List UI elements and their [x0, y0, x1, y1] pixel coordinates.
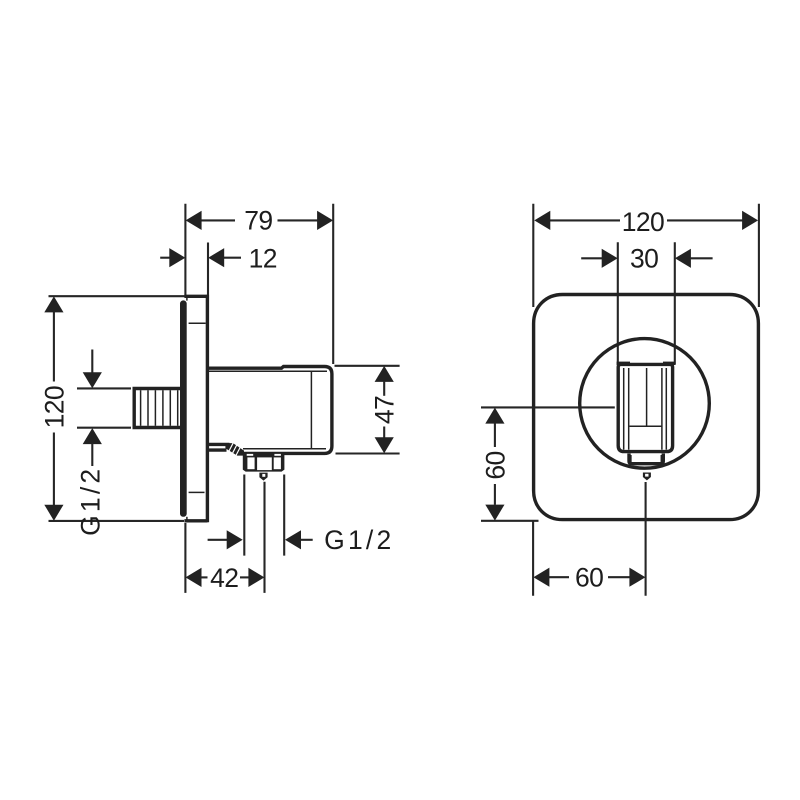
- escutcheon plate top edge: [184, 295, 207, 298]
- svg-text:G1/2: G1/2: [324, 525, 394, 555]
- nipple (front view): [643, 473, 651, 481]
- threaded inlet boss outline: [134, 389, 185, 428]
- svg-text:42: 42: [210, 563, 238, 593]
- svg-text:120: 120: [622, 207, 664, 237]
- dimension 60 bottom right arrow: [629, 568, 645, 587]
- centerline axis (right view): [645, 482, 647, 596]
- holder center vertical line: [646, 368, 648, 426]
- dimension 42 right arrow: [248, 568, 264, 587]
- holder body inner vertical line: [310, 371, 312, 448]
- holder top tab left: [617, 362, 630, 365]
- extension line x208 (plate front face, for dim 12): [207, 243, 209, 296]
- dimension 120 line (right view): [550, 219, 620, 221]
- escutcheon plate front face: [206, 295, 209, 522]
- dimension 47 line segments: [383, 381, 385, 396]
- dimension 60 left top arrow: [485, 408, 504, 424]
- G1/2 inlet extension line top: [77, 387, 131, 389]
- dimension 120 left arrow (right view): [534, 211, 550, 230]
- holder body inner bottom line: [243, 448, 326, 450]
- dimension 79 right arrow: [317, 211, 333, 230]
- dimension 47 extension line bottom: [336, 452, 400, 454]
- extension line x185 (wall face, for dims 79/12): [184, 204, 186, 295]
- dimension G1/2 outlet tail right: [300, 539, 313, 541]
- holder top tab right: [663, 362, 675, 365]
- extension line x618 (holder left, dim 30): [617, 242, 619, 364]
- dimension G1/2 outlet left arrow: [227, 530, 243, 549]
- G1/2 inlet upper leader line: [91, 350, 93, 374]
- dimension 120 line: [53, 311, 55, 381]
- svg-text:60: 60: [575, 563, 603, 593]
- dimension 30 tail left: [581, 257, 603, 259]
- holder arm chamfer band (filled): [225, 443, 244, 456]
- outlet nut (filled, side view): [243, 454, 285, 472]
- dimension 47 bottom arrow: [375, 437, 394, 453]
- holder front outline: [618, 364, 672, 451]
- dimension 47 extension line top: [335, 365, 400, 367]
- outlet nut facet right: [274, 457, 281, 469]
- dimension 120 top arrow: [44, 296, 63, 312]
- G1/2 inlet extension line bottom: [77, 427, 131, 429]
- escutcheon plate (front, soft square): [534, 295, 759, 520]
- dimension 30 left arrow: [602, 249, 618, 268]
- dimension G1/2 outlet tail left: [208, 539, 229, 541]
- extension line x533 (plate left, dim 120): [532, 204, 534, 307]
- dimension 60 bottom line segments: [548, 576, 569, 578]
- escutcheon plate bottom edge: [184, 519, 207, 522]
- dimension 60 left: extension line at plate bottom: [481, 520, 539, 522]
- dimension 60 left bottom arrow: [485, 505, 504, 521]
- extension line x533 bottom (dim 60 bottom): [532, 522, 534, 596]
- dimension 79 left arrow: [186, 211, 202, 230]
- dimension 30 right arrow: [675, 249, 691, 268]
- outlet nipple (side view): [259, 473, 267, 481]
- escutcheon plate corner tangent line bottom: [189, 491, 205, 493]
- dimension 12 line: [160, 257, 170, 259]
- G1/2 inlet upper arrow (down): [83, 372, 102, 388]
- svg-text:60: 60: [480, 451, 510, 479]
- G1/2 inlet lower leader line: [91, 443, 93, 466]
- extension line x758 (plate right, dim 120): [758, 204, 760, 307]
- dimension 12 right arrow: [208, 248, 224, 267]
- holder horizontal line: [630, 425, 662, 427]
- holder arm upper line: [209, 443, 230, 446]
- outlet nut facet middle: [257, 457, 272, 470]
- dimension 60 left line segments: [494, 423, 496, 447]
- escutcheon wall band (filled): [180, 300, 187, 516]
- svg-text:79: 79: [244, 206, 272, 236]
- extension line x333 (body front, for dim 79): [332, 204, 334, 364]
- threaded inlet boss hatch: [140, 390, 142, 426]
- holder arm lower line: [209, 448, 227, 451]
- extension line nut right: [283, 475, 285, 556]
- extension line x185 bottom (for dim 42): [184, 523, 186, 593]
- svg-text:G1/2: G1/2: [76, 466, 106, 536]
- dimension 30 tail right: [690, 257, 713, 259]
- G1/2 inlet lower arrow (up): [83, 428, 102, 444]
- dimension 42 left arrow: [186, 568, 202, 587]
- dimension 60 left: extension line at holder axis: [481, 406, 615, 408]
- extension line nut left: [243, 475, 245, 556]
- outlet nut top slit right: [274, 454, 281, 456]
- dimension 120 bottom arrow: [44, 505, 63, 521]
- holder ring circle: [580, 339, 710, 469]
- chamfer white ticks: [229, 443, 234, 452]
- holder inner vertical lines: [623, 368, 625, 450]
- escutcheon plate corner notch top: [186, 298, 188, 301]
- dimension G1/2 outlet right arrow: [285, 530, 301, 549]
- dimension 47 top arrow: [375, 366, 394, 382]
- escutcheon plate corner notch bottom: [186, 517, 188, 520]
- centerline outlet axis (left view): [263, 482, 265, 593]
- escutcheon plate corner tangent line top: [189, 322, 206, 324]
- holder lower box inner lines: [630, 455, 632, 462]
- dimension 120 right arrow (right view): [742, 211, 758, 230]
- dimension 12 left arrow: [169, 248, 185, 267]
- extension line x675 (holder right, dim 30): [674, 242, 676, 364]
- dimension 120 top extension line: [49, 295, 185, 297]
- holder lower box: [629, 454, 663, 464]
- holder body inner top line: [209, 370, 327, 372]
- dimension 42 line segments: [201, 576, 208, 578]
- svg-text:30: 30: [630, 244, 658, 274]
- dimension 79 line: [201, 219, 235, 221]
- outlet nut facet left: [247, 457, 254, 469]
- outlet nut top slit left: [247, 454, 254, 456]
- svg-text:120: 120: [40, 386, 70, 428]
- dimension 120 bottom extension line: [49, 520, 185, 522]
- svg-text:47: 47: [370, 396, 400, 424]
- dimension 60 bottom left arrow: [533, 568, 549, 587]
- svg-text:12: 12: [249, 243, 277, 273]
- holder body outline (side): [209, 367, 332, 454]
